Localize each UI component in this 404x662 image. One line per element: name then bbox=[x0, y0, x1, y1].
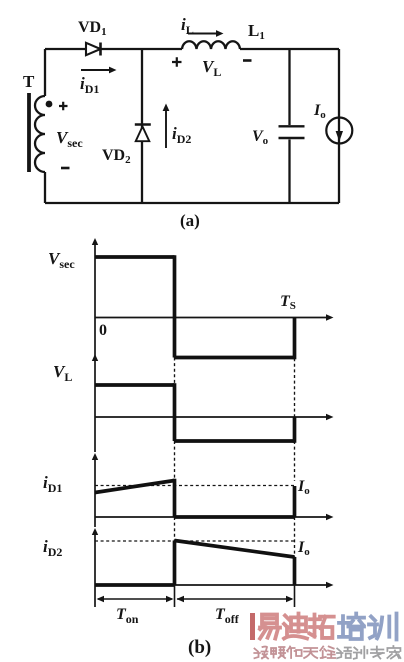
svg-text:(a): (a) bbox=[180, 211, 200, 230]
svg-text:(b): (b) bbox=[188, 637, 211, 658]
svg-text:T: T bbox=[23, 72, 35, 91]
svg-text:0: 0 bbox=[99, 322, 107, 339]
